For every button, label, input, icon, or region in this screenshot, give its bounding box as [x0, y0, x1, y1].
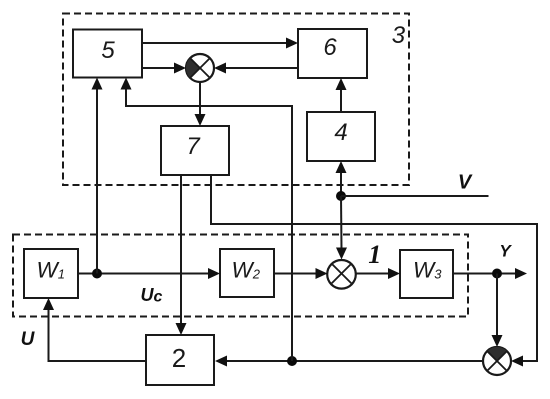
wire W3 to output Y [453, 268, 527, 279]
block 6 [298, 29, 367, 78]
block 7 [161, 126, 229, 175]
wire node a up to block 5 [92, 78, 103, 274]
wire bottom junction to block 2 [215, 356, 483, 367]
svg-text:1: 1 [368, 240, 381, 269]
wire W2 to junction 1 [274, 268, 328, 279]
svg-text:Y: Y [499, 242, 512, 261]
wire top junction to block 7 [195, 82, 206, 126]
dashed box 1 (plant subsystem border) [13, 235, 468, 317]
svg-text:U: U [21, 329, 36, 350]
summing junction 1 (middle, open) [327, 260, 356, 289]
wire node Y down to bottom junction [492, 274, 503, 348]
wire W1 to W2 [78, 268, 220, 279]
block 4 [307, 112, 375, 161]
node V junction dot [336, 191, 346, 201]
block W1 [24, 249, 78, 298]
node b junction dot on feedback line [287, 356, 297, 366]
wire V node to block4 [336, 161, 347, 196]
wire block6 to top junction [214, 63, 298, 74]
wire block 2 to W1 (U feedback) [43, 298, 146, 361]
block W3 [400, 250, 453, 298]
dashed box 3 (observer subsystem border) [63, 14, 409, 186]
wire node b up and left into block 5 [121, 78, 293, 362]
wire block4 to block6 [336, 78, 347, 112]
svg-text:5: 5 [101, 37, 115, 64]
block 2 [146, 335, 214, 385]
svg-text:4: 4 [334, 119, 347, 146]
block W2 [220, 249, 274, 297]
node Y junction dot [492, 269, 502, 279]
svg-text:6: 6 [323, 34, 337, 61]
svg-text:Uc: Uc [141, 285, 163, 306]
summing junction top (left quadrant filled) [186, 54, 214, 82]
summing junction bottom right (top quadrant filled) [483, 347, 511, 375]
wire V input line [341, 195, 489, 197]
wire V node down to junction 1 [336, 196, 347, 260]
wire block 7 left output to block 2 [176, 175, 187, 335]
wire block5 to top junction [142, 63, 186, 74]
wire junction 1 to W3 [356, 268, 401, 279]
svg-text:2: 2 [172, 343, 186, 373]
wire block5 to block6 [142, 38, 298, 49]
svg-text:7: 7 [186, 133, 201, 160]
node a junction dot on W1 output [92, 269, 102, 279]
wire block 7 right output to bottom junction [211, 175, 537, 367]
svg-text:3: 3 [392, 22, 406, 49]
svg-text:V: V [458, 172, 473, 194]
block 5 [73, 30, 142, 78]
